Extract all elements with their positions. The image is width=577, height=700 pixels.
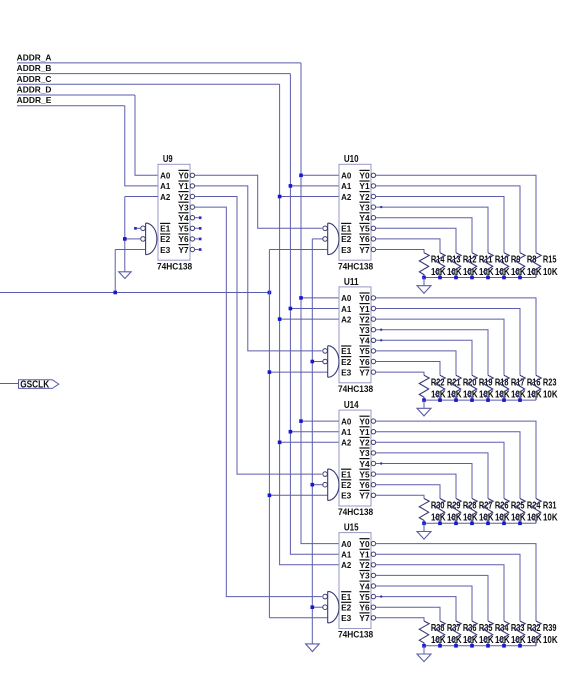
wire U14 Y7 to resistor bbox=[376, 495, 424, 498]
svg-text:U10: U10 bbox=[344, 154, 359, 165]
junction on resistor rail bbox=[470, 276, 474, 280]
svg-text:E2: E2 bbox=[160, 234, 171, 244]
wire U15 Y1 to resistor bbox=[376, 554, 520, 621]
resistor R11 10K bbox=[467, 253, 477, 278]
svg-text:10K: 10K bbox=[543, 635, 558, 646]
wire net ADDR_D horizontal bbox=[17, 94, 135, 96]
wire U10 Y6 to resistor bbox=[376, 239, 440, 253]
svg-text:E3: E3 bbox=[341, 367, 352, 377]
gate input bubbles E1 E2 of U11 bbox=[323, 349, 328, 354]
decoder U9 74HC138 body bbox=[158, 164, 190, 260]
enable gate U11 bbox=[328, 346, 339, 378]
svg-text:74HC138: 74HC138 bbox=[338, 384, 373, 394]
wire U10 Y0 to resistor bbox=[376, 175, 536, 252]
wire U9 Y5 stub bbox=[195, 227, 199, 229]
wire ADDR_D down to U9 A0 bbox=[135, 95, 158, 175]
svg-text:Y3: Y3 bbox=[178, 202, 189, 212]
resistor R13 10K bbox=[435, 253, 445, 278]
svg-text:A2: A2 bbox=[341, 560, 352, 570]
wire net ADDR_B column to A1 pins bbox=[290, 74, 339, 555]
wire U14 Y5 to resistor bbox=[376, 474, 456, 498]
svg-text:74HC138: 74HC138 bbox=[338, 261, 373, 271]
wire E2 ground column bbox=[311, 239, 313, 644]
no-connect square U9 Y7 bbox=[199, 248, 202, 251]
resistor R14 10K bbox=[419, 253, 429, 278]
svg-text:74HC138: 74HC138 bbox=[338, 507, 373, 517]
svg-text:Y2: Y2 bbox=[359, 560, 370, 570]
resistor R15 10K bbox=[531, 253, 541, 278]
wire rail to ground bbox=[423, 278, 425, 286]
svg-text:Y6: Y6 bbox=[359, 603, 370, 613]
svg-text:A2: A2 bbox=[341, 438, 352, 448]
enable gate U10 bbox=[328, 223, 339, 255]
no-connect square U9 E1 bbox=[134, 227, 137, 230]
svg-text:Y3: Y3 bbox=[359, 325, 370, 335]
ground of U11 resistor bank bbox=[417, 408, 431, 416]
node dot on U10 Y3 wire bbox=[380, 206, 382, 208]
enable gate U9 bbox=[146, 223, 157, 255]
wire ADDR_C to U11 A2 bbox=[280, 318, 339, 320]
wire U9 Y7 stub bbox=[195, 249, 199, 251]
wire U11 Y6 to resistor bbox=[376, 362, 440, 376]
node dot on U14 Y4 wire bbox=[380, 462, 382, 464]
junction ADDR_A at U14 A0 bbox=[299, 419, 303, 423]
gate input bubbles E1 E2 of U9 bbox=[141, 226, 146, 231]
resistor R28 10K bbox=[451, 499, 461, 524]
wire net ADDR_C horizontal bbox=[17, 83, 280, 85]
wire U10 Y7 to resistor bbox=[376, 250, 424, 253]
wire resistor common rail of U15 bank bbox=[424, 645, 536, 647]
svg-text:Y5: Y5 bbox=[359, 469, 370, 479]
junction E2 column at U14 bbox=[311, 483, 315, 487]
svg-text:Y5: Y5 bbox=[359, 592, 370, 602]
svg-text:A0: A0 bbox=[160, 171, 171, 181]
svg-text:E3: E3 bbox=[341, 491, 352, 501]
junction on resistor rail bbox=[454, 398, 458, 402]
resistor R34 10K bbox=[483, 621, 493, 646]
wire E3 enable column bbox=[268, 250, 270, 618]
wire U10 Y4 to resistor bbox=[376, 218, 472, 253]
svg-text:Y1: Y1 bbox=[178, 181, 189, 191]
wire U9 Y4 stub bbox=[195, 217, 199, 219]
junction ADDR_B at U14 A1 bbox=[289, 430, 293, 434]
enable gate U14 bbox=[328, 469, 339, 501]
wire U11 Y1 to resistor bbox=[376, 309, 520, 376]
junction on resistor rail bbox=[518, 644, 522, 648]
wire net ADDR_A column to A0 pins bbox=[301, 63, 339, 544]
junction on resistor rail bbox=[438, 398, 442, 402]
svg-text:U14: U14 bbox=[344, 400, 359, 411]
svg-text:E1: E1 bbox=[341, 346, 352, 356]
svg-text:A1: A1 bbox=[341, 427, 352, 437]
resistor R12 10K bbox=[451, 253, 461, 278]
wire U11 Y0 to resistor bbox=[376, 298, 536, 375]
svg-text:A2: A2 bbox=[341, 314, 352, 324]
svg-text:Y5: Y5 bbox=[178, 224, 189, 234]
wire U9 E1 stub bbox=[137, 227, 141, 229]
svg-text:GSCLK: GSCLK bbox=[20, 379, 50, 390]
svg-text:E3: E3 bbox=[341, 245, 352, 255]
svg-text:10K: 10K bbox=[527, 513, 542, 524]
resistor R29 10K bbox=[435, 499, 445, 524]
wire U11 E3 bbox=[269, 371, 327, 373]
node dot on U11 Y3 wire bbox=[380, 329, 382, 331]
junction ADDR_C at U10 A2 bbox=[278, 195, 282, 199]
no-connect square U9 Y5 bbox=[199, 227, 202, 230]
wire U9 E3 bbox=[115, 249, 145, 251]
decoder U14 74HC138 body bbox=[339, 410, 371, 506]
svg-text:Y1: Y1 bbox=[359, 550, 370, 560]
junction on resistor rail bbox=[454, 522, 458, 526]
svg-text:Y7: Y7 bbox=[359, 245, 370, 255]
svg-text:E2: E2 bbox=[341, 234, 352, 244]
output pin bubbles U15 Y0-Y7 bbox=[371, 541, 375, 545]
wire ADDR_A to U10 A0 bbox=[301, 174, 339, 176]
junction on resistor rail bbox=[422, 398, 426, 402]
svg-text:10K: 10K bbox=[527, 390, 542, 401]
svg-text:74HC138: 74HC138 bbox=[157, 261, 192, 271]
junction on resistor rail bbox=[518, 398, 522, 402]
wire resistor common rail of U14 bank bbox=[424, 522, 536, 524]
svg-text:10K: 10K bbox=[527, 635, 542, 646]
junction on resistor rail bbox=[422, 644, 426, 648]
wire U14 E2 bbox=[312, 484, 323, 486]
wire U9 Y1 to U11 E1 bbox=[195, 186, 322, 351]
wire U14 Y4 to resistor bbox=[376, 464, 472, 499]
wire U11 Y4 to resistor bbox=[376, 340, 472, 375]
resistor R35 10K bbox=[467, 621, 477, 646]
svg-text:Y2: Y2 bbox=[359, 438, 370, 448]
ground of U10 resistor bank bbox=[417, 286, 431, 294]
wire U9 A2 to grounded column bbox=[125, 196, 158, 198]
svg-text:Y5: Y5 bbox=[359, 224, 370, 234]
svg-text:Y0: Y0 bbox=[359, 416, 370, 426]
junction enable net / U9 E3 bbox=[113, 291, 117, 295]
resistor R27 10K bbox=[467, 499, 477, 524]
wire U10 Y5 to resistor bbox=[376, 228, 456, 252]
wire net ADDR_E horizontal bbox=[17, 105, 125, 107]
resistor R17 10K bbox=[499, 375, 509, 400]
svg-text:R15: R15 bbox=[543, 255, 557, 266]
wire U14 Y1 to resistor bbox=[376, 432, 520, 499]
svg-text:ADDR_B: ADDR_B bbox=[17, 64, 52, 73]
svg-text:ADDR_E: ADDR_E bbox=[17, 96, 52, 105]
wire U11 Y5 to resistor bbox=[376, 351, 456, 375]
svg-text:E3: E3 bbox=[341, 613, 352, 623]
svg-text:ADDR_A: ADDR_A bbox=[17, 53, 52, 62]
svg-text:Y2: Y2 bbox=[359, 192, 370, 202]
wire U15 Y3 to resistor bbox=[376, 575, 488, 621]
wire rail to ground bbox=[423, 646, 425, 654]
svg-text:Y3: Y3 bbox=[359, 448, 370, 458]
svg-text:Y3: Y3 bbox=[359, 202, 370, 212]
resistor R26 10K bbox=[483, 499, 493, 524]
wire U14 Y6 to resistor bbox=[376, 485, 440, 499]
wire resistor common rail of U11 bank bbox=[424, 399, 536, 401]
output pin bubbles U11 Y0-Y7 bbox=[371, 296, 375, 300]
junction on resistor rail bbox=[422, 276, 426, 280]
svg-text:Y5: Y5 bbox=[359, 346, 370, 356]
wire U10 Y1 to resistor bbox=[376, 186, 520, 253]
gate input bubbles E1 E2 of U15 bbox=[323, 594, 328, 599]
wire U15 Y0 to resistor bbox=[376, 544, 536, 621]
svg-text:10K: 10K bbox=[527, 267, 542, 278]
wire U9 Y2 to U14 E1 bbox=[195, 197, 322, 475]
ground of U14 resistor bank bbox=[417, 532, 431, 540]
resistor R37 10K bbox=[435, 621, 445, 646]
gate input bubbles E1 E2 of U14 bbox=[323, 472, 328, 477]
junction on resistor rail bbox=[470, 644, 474, 648]
decoder U15 74HC138 body bbox=[339, 533, 371, 629]
junction on resistor rail bbox=[438, 522, 442, 526]
resistor R10 10K bbox=[483, 253, 493, 278]
svg-text:A1: A1 bbox=[341, 304, 352, 314]
wire U15 Y2 to resistor bbox=[376, 565, 504, 621]
svg-text:E1: E1 bbox=[160, 224, 171, 234]
junction ADDR_C at U14 A2 bbox=[278, 441, 282, 445]
svg-text:A1: A1 bbox=[341, 550, 352, 560]
svg-text:Y6: Y6 bbox=[178, 234, 189, 244]
junction on resistor rail bbox=[438, 644, 442, 648]
svg-text:Y7: Y7 bbox=[178, 245, 189, 255]
svg-text:A0: A0 bbox=[341, 171, 352, 181]
svg-text:Y0: Y0 bbox=[359, 539, 370, 549]
wire ADDR_A to U14 A0 bbox=[301, 420, 339, 422]
ground under U9 bbox=[119, 272, 131, 279]
svg-text:ADDR_D: ADDR_D bbox=[17, 86, 52, 95]
svg-text:U15: U15 bbox=[344, 523, 359, 534]
wire U10 E3 bbox=[269, 249, 327, 251]
enable gate U15 bbox=[328, 591, 339, 623]
junction ADDR_C at U11 A2 bbox=[278, 317, 282, 321]
svg-text:R39: R39 bbox=[543, 623, 557, 634]
wire ADDR_E down to U9 A1 bbox=[125, 106, 158, 186]
wire U15 Y4 to resistor bbox=[376, 586, 472, 621]
junction on resistor rail bbox=[518, 522, 522, 526]
wire net ADDR_A horizontal bbox=[17, 62, 301, 64]
resistor R31 10K bbox=[531, 499, 541, 524]
no-connect square U9 Y6 bbox=[199, 238, 202, 241]
svg-text:E2: E2 bbox=[341, 357, 352, 367]
decoder U11 74HC138 body bbox=[339, 287, 371, 383]
svg-text:Y3: Y3 bbox=[359, 571, 370, 581]
resistor R8 10K bbox=[515, 253, 525, 278]
junction on resistor rail bbox=[454, 276, 458, 280]
output pin bubbles U9 Y0-Y7 bbox=[190, 173, 194, 177]
svg-text:Y0: Y0 bbox=[359, 293, 370, 303]
svg-text:10K: 10K bbox=[543, 267, 558, 278]
wire rail to ground bbox=[423, 400, 425, 408]
resistor R9 10K bbox=[499, 253, 509, 278]
junction E2 column at U15 bbox=[311, 605, 315, 609]
junction on resistor rail bbox=[502, 398, 506, 402]
svg-text:E3: E3 bbox=[160, 245, 171, 255]
wire U9 E2 from grounded column bbox=[125, 238, 141, 240]
svg-text:Y4: Y4 bbox=[359, 213, 370, 223]
svg-text:10K: 10K bbox=[543, 390, 558, 401]
wire grounded column under U9 bbox=[124, 197, 126, 272]
junction on resistor rail bbox=[470, 522, 474, 526]
wire U15 Y6 to resistor bbox=[376, 607, 440, 621]
resistor R24 10K bbox=[515, 499, 525, 524]
resistor R16 10K bbox=[515, 375, 525, 400]
svg-text:Y6: Y6 bbox=[359, 480, 370, 490]
resistor R19 10K bbox=[467, 375, 477, 400]
svg-text:Y2: Y2 bbox=[178, 192, 189, 202]
resistor R22 10K bbox=[419, 375, 429, 400]
resistor R25 10K bbox=[499, 499, 509, 524]
ground of E2 column bbox=[306, 644, 320, 652]
resistor R18 10K bbox=[483, 375, 493, 400]
wire U14 E3 bbox=[269, 494, 327, 496]
svg-text:Y4: Y4 bbox=[178, 213, 189, 223]
wire ADDR_C to U14 A2 bbox=[280, 441, 339, 443]
resistor R39 10K bbox=[531, 621, 541, 646]
wire resistor common rail of U10 bank bbox=[424, 277, 536, 279]
svg-text:E1: E1 bbox=[341, 469, 352, 479]
wire U11 Y2 to resistor bbox=[376, 319, 504, 375]
node dot on U15 Y5 wire bbox=[380, 595, 382, 597]
wire U9 Y6 stub bbox=[195, 238, 199, 240]
junction on resistor rail bbox=[470, 398, 474, 402]
svg-text:Y7: Y7 bbox=[359, 491, 370, 501]
wire U15 Y7 to resistor bbox=[376, 618, 424, 621]
junction on resistor rail bbox=[486, 644, 490, 648]
junction on resistor rail bbox=[438, 276, 442, 280]
wire ADDR_B to U10 A1 bbox=[290, 185, 339, 187]
svg-text:10K: 10K bbox=[543, 513, 558, 524]
junction ADDR_B at U11 A1 bbox=[289, 307, 293, 311]
resistor R21 10K bbox=[435, 375, 445, 400]
svg-text:Y0: Y0 bbox=[178, 171, 189, 181]
junction on resistor rail bbox=[502, 644, 506, 648]
wire U15 Y5 to resistor bbox=[376, 597, 456, 621]
svg-text:A0: A0 bbox=[341, 293, 352, 303]
wire net ADDR_B horizontal bbox=[17, 73, 290, 75]
svg-text:Y2: Y2 bbox=[359, 314, 370, 324]
svg-text:A1: A1 bbox=[160, 181, 171, 191]
junction on resistor rail bbox=[486, 398, 490, 402]
wire U11 Y7 to resistor bbox=[376, 372, 424, 375]
svg-text:E2: E2 bbox=[341, 603, 352, 613]
svg-text:R31: R31 bbox=[543, 501, 557, 512]
svg-text:R23: R23 bbox=[543, 377, 557, 388]
wire U11 E2 bbox=[312, 361, 323, 363]
junction on resistor rail bbox=[518, 276, 522, 280]
svg-text:Y1: Y1 bbox=[359, 304, 370, 314]
svg-text:ADDR_C: ADDR_C bbox=[17, 75, 52, 84]
junction U9 E2 on grounded column bbox=[123, 237, 127, 241]
wire U14 Y3 to resistor bbox=[376, 453, 488, 499]
svg-text:U9: U9 bbox=[163, 154, 173, 165]
wire ADDR_A to U11 A0 bbox=[301, 297, 339, 299]
resistor R33 10K bbox=[499, 621, 509, 646]
svg-text:Y4: Y4 bbox=[359, 336, 370, 346]
resistor R36 10K bbox=[451, 621, 461, 646]
svg-text:A0: A0 bbox=[341, 539, 352, 549]
svg-text:Y1: Y1 bbox=[359, 427, 370, 437]
svg-text:E1: E1 bbox=[341, 224, 352, 234]
junction ADDR_A at U11 A0 bbox=[299, 296, 303, 300]
wire net GSCLK bbox=[0, 383, 18, 385]
svg-text:Y7: Y7 bbox=[359, 367, 370, 377]
junction E3 column at U14 bbox=[268, 494, 272, 498]
wire U10 E2 bbox=[312, 238, 323, 240]
gate input bubbles E1 E2 of U10 bbox=[323, 226, 328, 231]
junction on resistor rail bbox=[454, 644, 458, 648]
svg-text:Y0: Y0 bbox=[359, 171, 370, 181]
svg-text:Y6: Y6 bbox=[359, 357, 370, 367]
no-connect square U9 Y4 bbox=[199, 216, 202, 219]
junction E2 column at U11 bbox=[311, 360, 315, 364]
junction enable net / E3 column bbox=[268, 291, 272, 295]
svg-text:Y7: Y7 bbox=[359, 613, 370, 623]
wire U11 Y3 to resistor bbox=[376, 330, 488, 376]
junction on resistor rail bbox=[422, 522, 426, 526]
junction on resistor rail bbox=[502, 276, 506, 280]
svg-text:Y6: Y6 bbox=[359, 234, 370, 244]
junction ADDR_B at U10 A1 bbox=[289, 184, 293, 188]
wire ADDR_B to U14 A1 bbox=[290, 431, 339, 433]
wire U9 E3 down to enable net bbox=[114, 250, 116, 293]
wire U9 Y3 to U15 E1 bbox=[195, 207, 322, 596]
junction on resistor rail bbox=[502, 522, 506, 526]
resistor R20 10K bbox=[451, 375, 461, 400]
resistor R23 10K bbox=[531, 375, 541, 400]
wire net ADDR_C column to A2 pins bbox=[280, 84, 339, 565]
wire enable net from left edge bbox=[0, 292, 269, 294]
wire U10 Y3 to resistor bbox=[376, 207, 488, 253]
svg-text:Y4: Y4 bbox=[359, 581, 370, 591]
junction ADDR_A at U10 A0 bbox=[299, 174, 303, 178]
svg-text:74HC138: 74HC138 bbox=[338, 630, 373, 640]
svg-text:E1: E1 bbox=[341, 592, 352, 602]
output pin bubbles U10 Y0-Y7 bbox=[371, 173, 375, 177]
ground of U15 resistor bank bbox=[417, 654, 431, 662]
wire ADDR_C to U10 A2 bbox=[280, 196, 339, 198]
svg-text:Y1: Y1 bbox=[359, 181, 370, 191]
resistor R32 10K bbox=[515, 621, 525, 646]
svg-text:A2: A2 bbox=[341, 192, 352, 202]
resistor R30 10K bbox=[419, 499, 429, 524]
wire U15 E2 bbox=[312, 606, 323, 608]
svg-text:U11: U11 bbox=[344, 277, 359, 288]
svg-text:A1: A1 bbox=[341, 181, 352, 191]
wire rail to ground bbox=[423, 523, 425, 531]
output pin bubbles U14 Y0-Y7 bbox=[371, 419, 375, 423]
svg-text:A0: A0 bbox=[341, 416, 352, 426]
wire U14 Y2 to resistor bbox=[376, 442, 504, 498]
junction E3 column at U11 bbox=[268, 370, 272, 374]
junction on resistor rail bbox=[486, 276, 490, 280]
wire U9 Y0 to U10 E1 bbox=[195, 175, 322, 228]
resistor R38 10K bbox=[419, 621, 429, 646]
svg-text:E2: E2 bbox=[341, 480, 352, 490]
svg-text:A2: A2 bbox=[160, 192, 171, 202]
wire U14 Y0 to resistor bbox=[376, 421, 536, 498]
node dot on U11 Y4 wire bbox=[380, 339, 382, 341]
decoder U10 74HC138 body bbox=[339, 164, 371, 260]
svg-text:Y4: Y4 bbox=[359, 459, 370, 469]
wire U15 E3 bbox=[269, 617, 327, 619]
wire ADDR_B to U11 A1 bbox=[290, 308, 339, 310]
net flag GSCLK bbox=[19, 380, 59, 389]
junction on resistor rail bbox=[486, 522, 490, 526]
wire U10 Y2 to resistor bbox=[376, 197, 504, 253]
